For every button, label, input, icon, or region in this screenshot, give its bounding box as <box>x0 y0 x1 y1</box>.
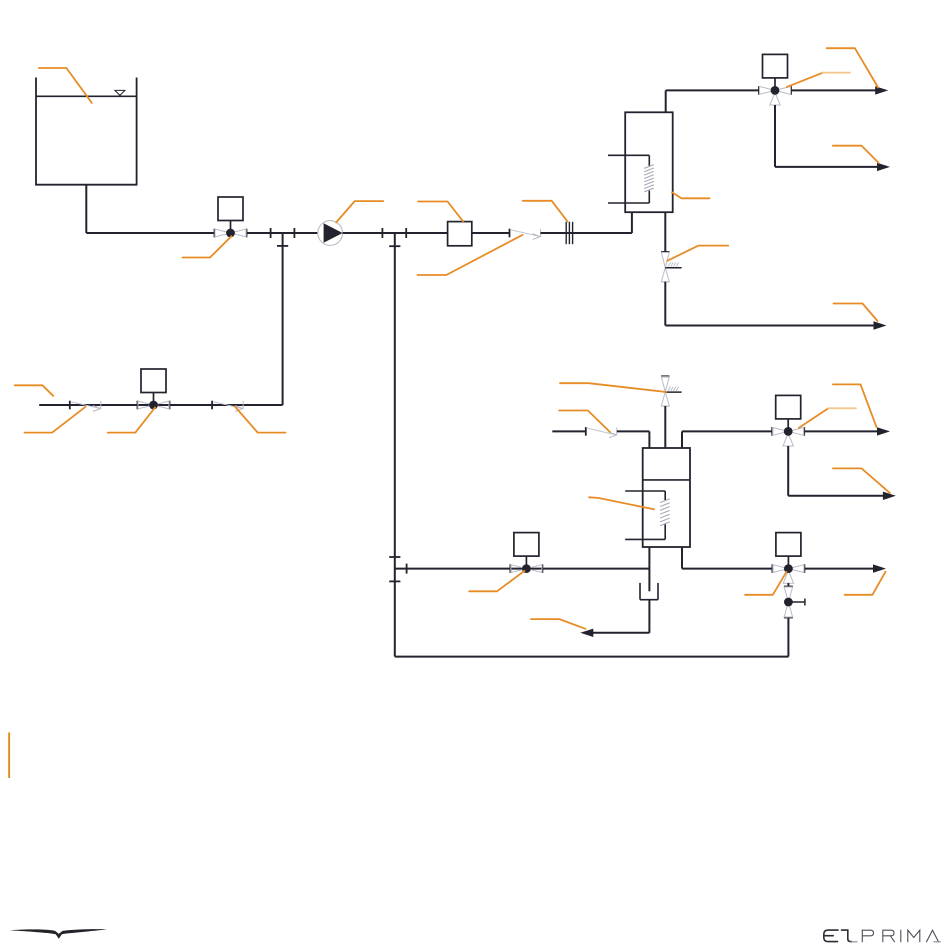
wire check valve to heat exchanger <box>541 232 632 234</box>
wire bottom-left supply line <box>39 404 282 406</box>
boiler W1 divider <box>643 479 690 481</box>
callout leader drain arrow A7 <box>531 619 586 629</box>
wire boiler hot outlet up <box>681 431 683 448</box>
HX1 coil riser segments <box>648 155 650 166</box>
boiler coil riser segments <box>664 491 666 500</box>
boiler W1 vessel <box>643 448 690 547</box>
wire funnel outlet <box>648 600 650 633</box>
wire pump discharge <box>343 232 448 234</box>
tank T1 water level symbol <box>115 90 125 95</box>
flow arrow A4 <box>877 427 890 435</box>
wire boiler cold inlet <box>552 430 586 432</box>
callout leader valve V3 diagonal <box>787 73 823 87</box>
footer wordmark E1 PRIMA <box>824 930 941 942</box>
callout leader valve V4 diagonal <box>799 408 828 428</box>
HX1 coil spring <box>644 165 654 169</box>
wire lower circulation line right <box>682 568 772 570</box>
flow arrow A7 left <box>580 629 593 637</box>
wire boiler bottom right stub <box>681 547 683 569</box>
wire top supply line <box>666 89 759 91</box>
callout leader arrow A6 <box>845 572 886 595</box>
tank T1 (open reservoir) <box>36 78 137 185</box>
orange margin bar <box>8 733 10 779</box>
flange tick <box>270 228 272 238</box>
wire branch 2 riser <box>394 233 396 657</box>
check valve C3 <box>509 229 511 238</box>
callout leader safety valve S2 <box>560 383 666 392</box>
callout leader boiler coil <box>589 497 654 509</box>
node branch junction 2 <box>389 245 400 247</box>
boiler coil upper stub <box>625 490 665 492</box>
valve V1 motorized 2-way <box>214 229 216 238</box>
footer swoosh logo <box>9 929 107 939</box>
wire return loop <box>787 618 789 657</box>
valve V5 motorized 2-way <box>509 564 511 573</box>
callout leader arrow A2 <box>833 146 879 163</box>
check valve C4 <box>585 427 587 436</box>
wire B1 to check valve <box>472 232 510 234</box>
wire V4 to arrow A4 <box>804 430 878 432</box>
wire main suction line <box>86 232 214 234</box>
wire HX1 top outlet <box>665 90 667 112</box>
flange tick <box>381 228 383 238</box>
callout leader valve V3 horizontal (faded) <box>823 72 850 74</box>
HX1 coil lower stub <box>608 202 649 204</box>
valve V3 motorized 3-way <box>758 86 760 95</box>
callout leader valve V4 horizontal (faded) <box>828 407 856 409</box>
wire V3 bypass down <box>774 105 776 167</box>
flow arrow A1 <box>875 86 888 94</box>
HX1 coil upper stub <box>608 154 649 156</box>
flow arrow A3 <box>874 321 887 329</box>
wire HX1 bottom to safety valve <box>664 212 666 252</box>
callout leader arrow A5 <box>833 468 890 493</box>
callout leader meter B1 <box>418 202 463 222</box>
wire V3 to arrow A1 <box>791 89 876 91</box>
wire riser into HX1 bottom <box>631 212 633 233</box>
flow arrow A6 <box>873 564 886 572</box>
wire V6 down to manual valve <box>787 583 789 587</box>
callout leader HX1 <box>672 192 710 198</box>
node branch junction 1 <box>277 245 288 247</box>
flange tick <box>406 564 408 574</box>
flange tick <box>389 580 400 582</box>
funnel drain D1 <box>639 583 641 600</box>
flange tick <box>405 228 407 238</box>
callout leader valve V1 <box>183 236 232 257</box>
callout leader inlet line <box>15 385 54 396</box>
callout leader check valve C1 <box>25 407 86 433</box>
wire bypass to arrow A2 <box>775 166 878 168</box>
flange tick <box>293 228 295 238</box>
pump P1 <box>318 221 343 246</box>
tank T1 water level line <box>36 95 137 97</box>
wire drain to arrow A3 <box>665 325 874 327</box>
check valve C2 <box>211 401 213 410</box>
callout leader valve V5 <box>469 571 524 592</box>
valve V2 motorized 2-way <box>137 401 139 410</box>
check valve C1 <box>69 401 71 410</box>
callout leader flex joint <box>523 201 568 222</box>
wire S1 drain down <box>664 282 666 326</box>
meter B1 (in-line device box) <box>448 222 472 246</box>
safety valve S2 <box>661 375 669 377</box>
wire hot outlet to valve V4 <box>682 430 772 432</box>
callout leader arrow A3 <box>834 304 878 322</box>
flow arrow A5 <box>883 492 896 500</box>
wire tank outlet down <box>85 185 87 233</box>
valve V4 motorized 3-way <box>771 427 773 436</box>
wire V1 to pump <box>247 232 319 234</box>
wire C4 to boiler <box>617 430 650 432</box>
callout leader check valve C4 <box>559 411 610 432</box>
callout leader arrow A1 <box>827 48 879 87</box>
manual valve M1 <box>784 586 793 588</box>
flange tick <box>389 556 400 558</box>
boiler coil spring <box>660 499 670 503</box>
callout leader check valve C2 <box>235 407 286 433</box>
callout leader tank <box>39 68 92 103</box>
callout leader arrow A4 <box>833 384 877 427</box>
safety valve S1 <box>661 251 669 253</box>
callout leader check valve C3 <box>417 235 522 275</box>
flow arrow A2 <box>877 163 890 171</box>
wire branch 1 riser <box>282 233 284 405</box>
boiler coil lower stub <box>625 538 665 540</box>
callout leader pump P1 <box>336 201 383 222</box>
wire V4 bypass down <box>787 446 789 496</box>
flex joint F1 <box>565 222 567 244</box>
callout leader safety valve S1 <box>667 246 728 261</box>
wire boiler inlet drop <box>648 431 650 448</box>
wire V6 to arrow A6 <box>804 568 874 570</box>
callout leader valve V2 <box>108 408 155 433</box>
heat exchanger HX1 vessel <box>625 112 673 212</box>
wire boiler drain stem <box>648 547 650 591</box>
callout leader valve V6 <box>745 572 787 595</box>
wire lower circulation line left <box>395 568 650 570</box>
valve V6 motorized 3-way <box>771 564 773 573</box>
wire S2 stem to boiler <box>664 406 666 448</box>
wire bypass to arrow A5 <box>788 495 884 497</box>
